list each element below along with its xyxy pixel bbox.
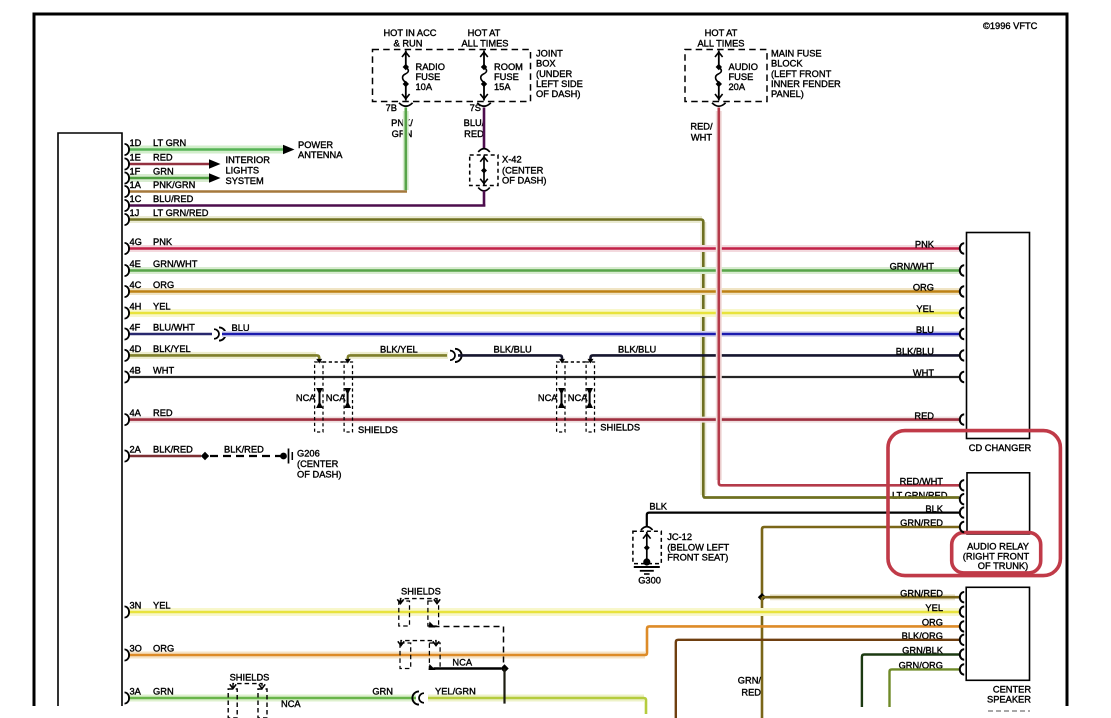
junction NCA [500,664,508,672]
CD changer pin WHT [960,372,964,382]
wire BLK/ORG [676,640,959,718]
svg-text:1J: 1J [130,208,140,218]
label CD CHANGER [969,443,1032,453]
pin 1F [125,167,174,184]
svg-text:4B: 4B [130,366,141,376]
svg-text:7B: 7B [386,103,397,113]
svg-text:ORG: ORG [153,280,174,290]
svg-text:INTERIOR: INTERIOR [226,155,271,165]
radio/head-unit connector box [58,133,122,706]
svg-text:(BELOW LEFT: (BELOW LEFT [667,542,729,552]
svg-text:LT GRN: LT GRN [153,138,186,148]
svg-text:RED: RED [153,153,173,163]
wire RED/WHT from audio fuse [719,108,959,486]
pin 4B [125,366,175,383]
pin 1A [125,180,196,197]
pin 4G [125,237,173,254]
svg-text:(CENTER: (CENTER [297,459,339,469]
svg-text:BLU/: BLU/ [464,118,485,128]
shield B bowtie left [558,388,565,408]
label INTERIOR LIGHTS SYSTEM [226,155,271,186]
svg-text:NCA: NCA [568,393,588,403]
label ORG right [913,283,934,293]
inline connector 3A [412,691,424,704]
svg-text:BLOCK: BLOCK [771,59,803,69]
svg-text:FUSE: FUSE [416,72,441,82]
svg-text:POWER: POWER [298,140,333,150]
wire GRN/ORG [890,669,960,707]
wire 3O ORG [128,626,959,655]
audio relay pin GRN/RED [960,522,964,532]
joint box (dashed) [373,50,531,102]
CD changer pin BLU [960,329,964,339]
label SHIELDS E [230,673,270,683]
wire 4D BLK/YEL mid [345,355,448,363]
pin 1D [125,138,187,155]
label BLK/BLU mid [494,345,532,355]
label BLK (jc-12 end) [649,502,667,512]
wire BLK to JC-12 [647,513,959,526]
center speaker pin GRN/ORG [960,664,964,674]
shield box D right (dashed) [429,643,440,669]
svg-text:ORG: ORG [153,644,174,654]
svg-text:10A: 10A [416,82,433,92]
svg-text:FRONT SEAT): FRONT SEAT) [667,553,728,563]
svg-text:BLK/YEL: BLK/YEL [380,345,418,355]
label YEL right [916,304,934,314]
ground G300 symbol [634,558,660,574]
svg-text:SPEAKER: SPEAKER [987,695,1031,705]
svg-text:1E: 1E [130,153,141,163]
center speaker pin YEL [960,607,964,617]
svg-text:HOT AT: HOT AT [705,28,738,38]
svg-text:(RIGHT FRONT: (RIGHT FRONT [963,552,1030,562]
svg-text:4A: 4A [130,408,142,418]
connector X-42 (dashed box) [470,155,498,186]
pin 1E [125,153,173,170]
pin 4E [125,259,198,276]
wire NCA drain [434,667,502,669]
svg-text:RED: RED [464,129,484,139]
svg-text:AUDIO RELAY: AUDIO RELAY [967,542,1029,552]
svg-text:ALL TIMES: ALL TIMES [461,38,508,48]
label NCA A-right [326,393,346,403]
svg-text:GRN: GRN [392,129,413,139]
wire 4F BLU/WHT [128,333,212,336]
pin 4H [125,302,171,319]
label YEL/GRN mid [435,687,476,697]
label YEL right (center speaker) [925,603,943,613]
wire BLU/RED vertical from 7S [483,108,486,149]
pin 1C [125,194,194,211]
svg-text:PANEL): PANEL) [771,89,804,99]
audio relay pin BLK [960,507,964,517]
shield box A left (dashed) [315,362,323,432]
label GRN mid [372,687,393,697]
fuse ROOM FUSE 15A symbol [480,51,488,101]
ground G206 symbol [280,449,292,464]
wire PNK/GRN vertical from 7B [403,108,409,191]
svg-text:ROOM: ROOM [494,62,523,72]
connector arc X-42 bottom [478,188,490,191]
label NCA B-left [538,393,558,403]
wire 2A BLK/RED [128,455,201,458]
CD changer pin RED [960,414,964,424]
label NCA D [452,657,472,667]
label BLU/RED (fuse wire) [464,118,485,139]
label WHT right [913,368,934,378]
svg-text:1C: 1C [130,194,142,204]
svg-text:4D: 4D [130,344,142,354]
svg-text:RED: RED [741,687,761,697]
label BLU mid [232,323,250,333]
svg-text:YEL: YEL [916,304,934,314]
wire GRN/RED down [761,597,764,718]
label PNK/GRN (fuse wire) [391,118,413,139]
svg-text:1F: 1F [130,167,141,177]
shield C drain arrow [429,622,436,628]
audio relay pin RED/WHT [960,480,964,490]
shield B bowtie right [586,388,593,408]
connector JC-12 (dashed box) [633,531,661,563]
svg-text:7S: 7S [470,103,481,113]
center speaker box [966,587,1029,680]
CD changer pin YEL [960,308,964,318]
label BLK/ORG right [902,631,943,641]
svg-text:BLK/BLU: BLK/BLU [618,345,656,355]
svg-text:3A: 3A [130,687,142,697]
wire GRN/BLK [862,655,959,708]
shield box A right (dashed) [344,362,352,432]
label X-42 [502,155,546,186]
svg-text:& RUN: & RUN [394,38,423,48]
pin 4D [125,344,191,361]
pin 3A [125,687,174,704]
label BLK/BLU right [896,347,934,357]
svg-text:FUSE: FUSE [729,72,754,82]
svg-text:NCA: NCA [296,393,316,403]
svg-text:BLU/WHT: BLU/WHT [153,323,195,333]
wire GRN/RED from relay [762,527,959,594]
svg-text:BLK/BLU: BLK/BLU [896,347,934,357]
svg-text:OF TRUNK): OF TRUNK) [978,561,1028,571]
shield D drain arrow [429,664,436,670]
svg-text:HOT IN ACC: HOT IN ACC [383,28,436,38]
label SHIELDS A [358,425,398,435]
wire 1E RED [128,163,209,166]
svg-text:NCA: NCA [452,657,472,667]
CD changer pin GRN/WHT [960,265,964,275]
svg-text:3O: 3O [130,644,142,654]
svg-text:4H: 4H [130,302,142,312]
annotation circle outer [888,431,1060,576]
label G206 [297,449,341,480]
svg-text:BLK/BLU: BLK/BLU [494,345,532,355]
shield A top dashed link [323,361,344,363]
wire 3A YEL/GRN [428,698,646,714]
svg-text:WHT: WHT [691,133,712,143]
label JC-12 [667,532,729,563]
svg-text:BLK/RED: BLK/RED [153,445,193,455]
svg-text:NCA: NCA [326,393,346,403]
label BLK/BLU mid2 [618,345,656,355]
svg-text:MAIN FUSE: MAIN FUSE [771,49,822,59]
label AUDIO FUSE 20A [729,62,758,92]
svg-text:WHT: WHT [153,366,174,376]
svg-text:RED: RED [153,408,173,418]
label NCA A-left [296,393,316,403]
svg-text:YEL: YEL [153,601,171,611]
shield box D left (dashed) [400,643,411,669]
label LT GRN/RED right [892,490,948,500]
wire 1J LT GRN/RED [128,220,959,498]
svg-text:GRN/WHT: GRN/WHT [153,259,198,269]
svg-text:CD CHANGER: CD CHANGER [969,443,1032,453]
connector arc X-42 top [478,149,490,152]
wire 1C BLU/RED [128,204,485,207]
wire GRN/RED to center speaker [762,594,959,600]
wire BLU/RED below X-42 [483,191,486,207]
svg-text:GRN: GRN [153,687,174,697]
shield C bracket (dashed) [397,599,440,604]
arrow to interior lights 1 [209,159,221,169]
shield box E right (dashed) [258,689,267,718]
svg-text:YEL: YEL [925,603,943,613]
pin 2A [125,445,194,462]
cut text marks [988,710,1030,712]
label RED right [914,411,934,421]
label PNK right [915,240,935,250]
wire 4G PNK [128,245,959,252]
svg-text:RED/: RED/ [690,122,713,132]
svg-text:BLU: BLU [916,325,934,335]
svg-text:LT GRN/RED: LT GRN/RED [892,490,948,500]
pin 4A [125,408,173,425]
label BLU right [916,325,934,335]
svg-text:BLK/YEL: BLK/YEL [153,344,191,354]
svg-text:ORG: ORG [913,283,934,293]
label HOT AT ALL TIMES (joint box) [461,28,508,48]
shield box C left (dashed) [399,601,410,626]
svg-text:LEFT SIDE: LEFT SIDE [536,79,583,89]
svg-text:PNK: PNK [915,240,935,250]
svg-text:1D: 1D [130,138,142,148]
svg-text:OF DASH): OF DASH) [297,470,341,480]
label BLK/RED dashed [224,445,264,455]
connector 7S [470,103,491,113]
label ORG right (center speaker) [922,618,943,628]
svg-text:GRN/: GRN/ [738,675,762,685]
label GRN/RED right [900,518,943,528]
svg-text:JOINT: JOINT [536,49,563,59]
svg-text:BLK: BLK [649,502,667,512]
svg-text:LT GRN/RED: LT GRN/RED [153,208,209,218]
svg-text:NCA: NCA [538,393,558,403]
inline connector 4D [450,349,462,362]
shield box B right (dashed) [586,362,594,432]
svg-text:SHIELDS: SHIELDS [358,425,398,435]
svg-text:SHIELDS: SHIELDS [230,673,270,683]
svg-text:RED: RED [914,411,934,421]
svg-text:SYSTEM: SYSTEM [226,176,264,186]
label G300 [638,575,661,585]
arrow to power antenna [283,145,295,155]
svg-text:SHIELDS: SHIELDS [401,587,441,597]
label SHIELDS B [600,423,640,433]
wire 4D BLK/BLU right [588,355,960,363]
wire 4A RED [128,417,959,423]
label GRN/ORG right [899,661,943,671]
svg-text:PNK/GRN: PNK/GRN [153,180,195,190]
shield D bracket (dashed) [398,641,439,646]
wire 3A GRN [128,695,416,702]
svg-text:ORG: ORG [922,618,943,628]
copyright text [983,21,1038,31]
connector arc JC-12 top [641,527,653,530]
svg-text:HOT AT: HOT AT [468,28,501,38]
svg-text:GRN/WHT: GRN/WHT [890,262,935,272]
svg-text:4E: 4E [130,259,141,269]
shield A bowtie left [316,388,323,408]
svg-text:15A: 15A [494,82,511,92]
label GRN/RED right (center speaker) [900,588,943,598]
wire 4D BLK/BLU mid [458,355,565,363]
label AUDIO RELAY [963,542,1030,572]
CD changer pin BLK/BLU [960,350,964,360]
svg-text:OF DASH): OF DASH) [502,175,546,185]
label CENTER SPEAKER [987,685,1031,705]
svg-text:PNK: PNK [153,237,173,247]
svg-text:4F: 4F [130,323,141,333]
svg-text:4G: 4G [130,237,142,247]
svg-text:SHIELDS: SHIELDS [600,423,640,433]
wire 4B WHT [128,376,959,378]
wire 1F GRN [128,174,209,182]
wire 4C ORG [128,288,959,295]
svg-text:WHT: WHT [913,368,934,378]
wire 4F BLU [222,331,959,337]
shield B top dashed link [565,361,586,363]
svg-text:20A: 20A [729,82,746,92]
svg-text:(UNDER: (UNDER [536,69,572,79]
label ROOM FUSE 15A [494,62,523,92]
wire 4H YEL [128,309,959,317]
audio relay pin LT GRN/RED [960,494,964,504]
svg-text:CENTER: CENTER [993,685,1032,695]
label BLK (relay pin) [925,504,943,514]
svg-text:BLK/RED: BLK/RED [224,445,264,455]
junction diamond 2A [201,452,209,460]
connector 7B [386,103,413,113]
center speaker pin ORG [960,621,964,631]
shield box C right (dashed) [428,601,439,626]
inline connector 4F [214,327,226,340]
svg-text:JC-12: JC-12 [667,532,692,542]
CD changer box [967,233,1030,439]
label GRN/BLK right [902,646,944,656]
center speaker pin GRN/BLK [960,649,964,659]
shield box B left (dashed) [557,362,565,432]
center speaker pin GRN/RED [960,592,964,602]
arrow to interior lights 2 [209,173,221,183]
svg-text:RADIO: RADIO [416,62,445,72]
pin 4C [125,280,175,297]
svg-text:GRN/RED: GRN/RED [900,588,943,598]
wire 4D BLK/YEL left [128,355,322,363]
pin 3O [125,644,175,661]
label GRN/WHT right [890,262,935,272]
svg-text:1A: 1A [130,180,142,190]
svg-text:OF DASH): OF DASH) [536,89,580,99]
CD changer pin ORG [960,286,964,296]
wire NCA down [503,669,505,704]
svg-text:2A: 2A [130,445,142,455]
shield E bracket (dashed) [230,684,265,689]
svg-text:PNK/: PNK/ [391,118,413,128]
wire BLK/RED dashed to ground [210,455,281,457]
svg-text:BLU/RED: BLU/RED [153,194,194,204]
svg-text:BOX: BOX [536,59,556,69]
label POWER ANTENNA [298,140,343,160]
svg-text:4C: 4C [130,280,142,290]
label BLK/YEL mid [380,345,418,355]
annotation circle inner [952,533,1041,573]
svg-text:G300: G300 [638,575,661,585]
fuse AUDIO FUSE 20A symbol [715,51,723,101]
shield A bowtie right [344,388,351,408]
svg-text:LIGHTS: LIGHTS [226,166,260,176]
svg-text:RED/WHT: RED/WHT [900,477,944,487]
svg-text:X-42: X-42 [502,155,522,165]
svg-text:INNER FENDER: INNER FENDER [771,79,841,89]
audio relay box [967,473,1030,534]
svg-text:3N: 3N [130,601,142,611]
label HOT IN ACC & RUN [383,28,436,48]
svg-text:(LEFT FRONT: (LEFT FRONT [771,69,832,79]
junction GRN/RED [758,593,766,601]
label RED/WHT right [900,477,944,487]
label NCA E [281,699,301,709]
wire 1A PNK/GRN [128,190,407,193]
shield C drain dashed [434,627,504,665]
wire 4E GRN/WHT [128,267,959,274]
svg-text:©1996 VFTC: ©1996 VFTC [983,21,1038,31]
CD changer pin PNK [960,243,964,253]
fuse RADIO FUSE 10A symbol [402,51,410,101]
svg-text:ANTENNA: ANTENNA [298,150,343,160]
svg-text:FUSE: FUSE [494,72,519,82]
svg-text:YEL: YEL [153,302,171,312]
connector below audio fuse [712,103,726,106]
svg-text:AUDIO: AUDIO [729,62,758,72]
label RED/WHT (fuse wire) [690,122,713,143]
shield box E left (dashed) [228,689,237,718]
svg-text:GRN: GRN [372,687,393,697]
label NCA B-right [568,393,588,403]
svg-text:ALL TIMES: ALL TIMES [697,38,744,48]
label RADIO FUSE 10A [416,62,445,92]
wire LT GRN/RED pin stub [703,496,959,499]
pin 1J [125,208,209,225]
label HOT AT ALL TIMES (main fuse) [697,28,744,48]
wire 3N YEL [128,608,959,616]
main fuse block box (dashed) [685,50,767,102]
main fuse block label [771,49,841,100]
pin 4F [125,323,196,340]
svg-text:(CENTER: (CENTER [502,166,544,176]
pin 3N [125,601,171,618]
svg-text:G206: G206 [297,449,320,459]
